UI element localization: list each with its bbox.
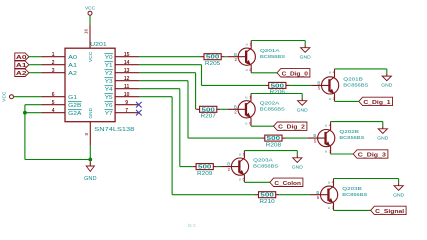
svg-text:G2B: G2B [68, 103, 82, 109]
svg-text:2: 2 [228, 167, 231, 172]
svg-text:Y1: Y1 [105, 63, 113, 69]
svg-text:Q202A: Q202A [260, 100, 281, 105]
svg-text:u: u [328, 180, 330, 184]
IC reference U201 [90, 42, 107, 48]
svg-text:500: 500 [198, 165, 212, 171]
svg-text:9: 9 [125, 100, 128, 106]
svg-text:R209: R209 [197, 171, 213, 177]
svg-text:BC856BS: BC856BS [339, 135, 364, 140]
wire Q202B emitter [331, 122, 383, 130]
svg-text:BC856BS: BC856BS [253, 164, 278, 169]
footer text [188, 223, 196, 228]
svg-text:C_Dig_3: C_Dig_3 [358, 153, 386, 159]
svg-text:u: u [329, 71, 331, 75]
wire pin11 to R209 [139, 89, 193, 167]
svg-text:GND: GND [297, 107, 309, 113]
transistor Q203B [310, 186, 338, 203]
global label A1 [15, 61, 29, 69]
IC pin 16 VCC [84, 24, 90, 48]
resistor R207 [196, 106, 220, 119]
svg-text:GND: GND [300, 54, 312, 60]
global label C_Dig_1 [359, 97, 393, 106]
label Q202B value [339, 129, 364, 140]
svg-text:Y0: Y0 [105, 55, 113, 61]
svg-text:500: 500 [202, 107, 216, 113]
global label A0 [15, 53, 29, 61]
ground Q203B [393, 179, 405, 199]
svg-text:16: 16 [84, 29, 89, 35]
svg-text:2: 2 [234, 110, 237, 115]
wire pin10 to R210 [139, 97, 255, 195]
IC pin 9 Y6 [105, 100, 140, 109]
svg-text:VCC: VCC [88, 51, 93, 62]
IC pin 7 Y7 [105, 108, 140, 117]
IC pin name GND rotated [88, 107, 93, 118]
svg-text:A0: A0 [16, 55, 27, 61]
ground Q201B [381, 69, 393, 89]
svg-text:u: u [328, 206, 330, 210]
transistor Q201B [311, 77, 339, 94]
svg-text:8: 8 [84, 133, 89, 136]
power symbol VCC top [85, 6, 96, 16]
svg-text:2: 2 [234, 57, 237, 62]
pin numbers Q203A [239, 152, 245, 181]
svg-text:GND: GND [88, 107, 93, 118]
svg-text:u: u [245, 122, 247, 126]
wire Q203B emitter [334, 179, 399, 187]
wire pin14 to R206 [139, 65, 265, 86]
svg-text:Q201A: Q201A [260, 48, 281, 53]
svg-text:2: 2 [52, 60, 55, 66]
svg-text:R210: R210 [259, 199, 275, 205]
wire pin16 VCC stub [89, 15, 91, 24]
svg-text:1: 1 [249, 95, 251, 99]
label Q202A value [260, 100, 285, 111]
wire R208 to Q202B base [286, 137, 308, 139]
svg-text:500: 500 [206, 55, 220, 61]
svg-text:4: 4 [333, 71, 335, 75]
wire Q201B collector [335, 94, 359, 102]
svg-text:C_Colon: C_Colon [274, 181, 301, 187]
power symbol VCC left [2, 91, 14, 102]
svg-text:BC856BS: BC856BS [343, 83, 368, 88]
label Q201B value [343, 77, 368, 88]
transistor Q201A [228, 48, 256, 65]
wire G2B left [25, 105, 42, 113]
wire Q202B collector [331, 147, 354, 155]
IC pin 6 G1 [42, 92, 78, 101]
wire Q203A emitter [244, 151, 297, 159]
svg-text:Q202B: Q202B [339, 129, 359, 134]
svg-text:GND: GND [393, 192, 405, 198]
wire R206 to Q201B base [289, 84, 311, 86]
wire R210 to Q203B base [279, 194, 310, 196]
svg-text:R206: R206 [270, 90, 286, 96]
svg-text:BC856BS: BC856BS [260, 54, 285, 59]
svg-text:500: 500 [271, 83, 285, 89]
svg-text:Y4: Y4 [105, 87, 113, 93]
svg-text:Y3: Y3 [105, 79, 113, 85]
svg-text:A2: A2 [16, 71, 27, 77]
svg-text:11: 11 [124, 84, 130, 90]
wire pin12 to R208 [139, 81, 261, 138]
svg-text:Y5: Y5 [105, 95, 113, 101]
junction gnd run [88, 158, 92, 162]
wire R205 to Q201A base [225, 56, 228, 58]
IC pin 12 Y3 [105, 76, 140, 85]
resistor R210 [255, 192, 279, 205]
svg-text:u: u [329, 97, 331, 101]
global label C_Dig_2 [274, 122, 307, 131]
svg-text:GND: GND [292, 164, 304, 170]
wire R209 to Q203A base [217, 166, 221, 168]
svg-text:4: 4 [52, 108, 55, 114]
wire pin15 to R205 [139, 56, 201, 58]
svg-text:R205: R205 [205, 61, 221, 67]
wire A1 to pin [29, 64, 42, 66]
svg-text:u: u [245, 95, 247, 99]
svg-text:4: 4 [332, 180, 334, 184]
svg-text:500: 500 [267, 136, 281, 142]
svg-text:Q203B: Q203B [342, 186, 362, 191]
global label A2 [15, 69, 29, 77]
svg-text:Q203A: Q203A [253, 158, 274, 163]
svg-text:14: 14 [124, 60, 130, 66]
wire Q203A collector [244, 175, 269, 182]
wire Q202A emitter [251, 94, 302, 101]
wire pin8 down [89, 146, 91, 162]
svg-text:C_Dig_1: C_Dig_1 [363, 100, 390, 106]
IC pin 2 A1 [42, 60, 78, 69]
svg-text:U201: U201 [90, 42, 107, 48]
wire Q201A emitter [251, 41, 305, 49]
pin numbers Q201B [329, 71, 335, 101]
svg-text:Y2: Y2 [105, 71, 113, 77]
svg-text:5: 5 [314, 138, 317, 143]
IC value SN74LS138 [94, 127, 134, 133]
svg-text:G1: G1 [68, 95, 77, 101]
IC pin 10 Y5 [105, 92, 140, 101]
pin numbers Q202A [245, 95, 251, 125]
svg-text:13: 13 [124, 68, 130, 74]
svg-text:1: 1 [52, 52, 55, 58]
svg-text:GND: GND [381, 83, 393, 89]
svg-text:Y6: Y6 [105, 103, 113, 109]
svg-text:A1: A1 [16, 63, 27, 69]
svg-text:SN74LS138: SN74LS138 [94, 127, 134, 133]
svg-text:u: u [239, 178, 241, 182]
pin numbers Q202B [325, 123, 331, 153]
IC pin 13 Y2 [105, 68, 140, 77]
wire Q203B collector [334, 203, 371, 210]
svg-text:1: 1 [249, 42, 251, 46]
no-connect pin 9 [136, 102, 142, 108]
svg-text:C_Signal: C_Signal [375, 209, 404, 215]
transistor Q203A [221, 158, 249, 175]
global label C_Dig_3 [353, 150, 388, 159]
ground Q202A [297, 94, 309, 114]
IC pin 14 Y1 [105, 60, 140, 69]
svg-text:u: u [325, 149, 327, 153]
label Q203B value [342, 186, 367, 197]
IC pin name VCC rotated [88, 51, 93, 62]
svg-text:BC856BS: BC856BS [260, 106, 285, 111]
resistor R206 [265, 82, 289, 95]
transistor Q202B [307, 129, 335, 146]
IC pin 15 Y0 [105, 52, 140, 61]
IC pin 4 G2A [42, 108, 83, 117]
global label C_Colon [270, 178, 303, 187]
svg-text:7: 7 [125, 108, 128, 114]
svg-text:u: u [246, 42, 248, 46]
IC pin 1 A0 [42, 52, 78, 61]
svg-text:A0: A0 [68, 55, 77, 61]
svg-text:BC856BS: BC856BS [342, 192, 367, 197]
wire down to gnd run [25, 113, 90, 160]
IC pin 5 G2B [42, 100, 83, 109]
wire Q201A collector [251, 65, 277, 73]
svg-text:A2: A2 [68, 71, 77, 77]
resistor R209 [193, 164, 217, 177]
svg-text:500: 500 [260, 193, 274, 199]
wire Q202A collector [251, 118, 274, 127]
svg-text:A1: A1 [68, 63, 77, 69]
svg-text:12: 12 [124, 76, 130, 82]
transistor Q202A [228, 101, 256, 118]
svg-text:10: 10 [124, 92, 130, 98]
svg-text:5: 5 [317, 195, 320, 200]
svg-text:G2A: G2A [68, 111, 82, 117]
svg-text:Y7: Y7 [105, 111, 113, 117]
ground Q203A [292, 151, 304, 171]
svg-text:u: u [239, 152, 241, 156]
pin numbers Q201A [246, 42, 252, 72]
ground Q202B [377, 122, 389, 142]
op IC U201 body [65, 48, 115, 122]
svg-text:4: 4 [329, 123, 331, 127]
IC pin 8 GND [84, 122, 90, 146]
svg-text:C_Dig_2: C_Dig_2 [278, 125, 305, 131]
svg-text:VCC: VCC [2, 91, 8, 102]
resistor R208 [261, 135, 285, 148]
svg-text:C_Dig_0: C_Dig_0 [282, 71, 308, 77]
svg-text:15: 15 [124, 52, 130, 58]
junction G2A [23, 111, 27, 115]
svg-text:bt C: bt C [188, 223, 196, 227]
label Q201A value [260, 48, 285, 59]
svg-text:6: 6 [52, 92, 55, 98]
svg-text:Q201B: Q201B [343, 77, 363, 82]
global label C_Signal [371, 206, 407, 215]
svg-text:GND: GND [84, 176, 97, 182]
svg-text:3: 3 [52, 68, 55, 74]
IC pin 11 Y4 [105, 84, 140, 93]
wire Q201B emitter [335, 69, 387, 77]
wire pin13 to R207 [139, 73, 196, 110]
svg-text:u: u [325, 123, 327, 127]
wire A0 to pin [29, 56, 42, 58]
pin numbers Q203B [328, 180, 334, 210]
ground under IC [84, 162, 97, 182]
svg-text:u: u [246, 68, 248, 72]
label Q203A value [253, 158, 278, 169]
wire VCC to G1 [14, 96, 42, 98]
svg-text:1: 1 [243, 152, 245, 156]
wire R207 to Q202A base [220, 108, 227, 110]
wire A2 to pin [29, 72, 42, 74]
svg-text:R208: R208 [266, 142, 282, 148]
ground Q201A [300, 41, 312, 61]
IC pin 3 A2 [42, 68, 78, 77]
wire G2A left [25, 112, 42, 114]
svg-text:VCC: VCC [85, 6, 96, 12]
svg-text:GND: GND [377, 135, 389, 141]
resistor R205 [201, 54, 225, 67]
no-connect pin 7 [136, 110, 142, 116]
svg-text:5: 5 [318, 86, 321, 91]
global label C_Dig_0 [277, 69, 310, 78]
svg-text:5: 5 [52, 100, 55, 106]
svg-text:R207: R207 [201, 114, 217, 120]
